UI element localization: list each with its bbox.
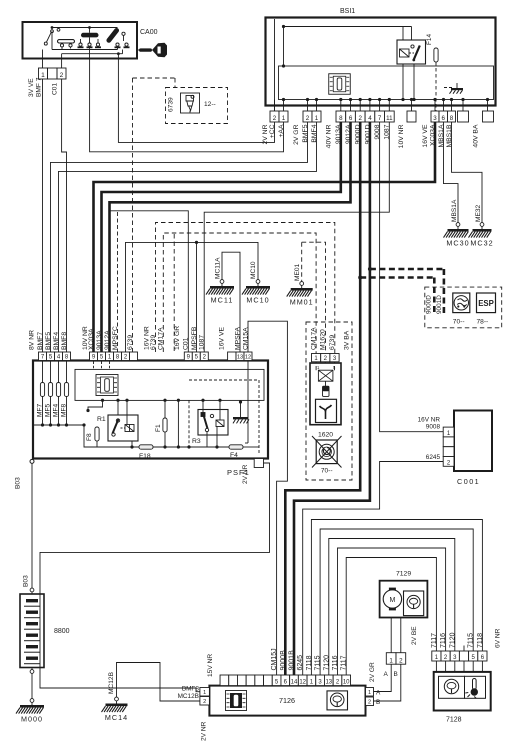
- svg-text:BMF8: BMF8: [182, 686, 199, 693]
- svg-text:4: 4: [368, 115, 372, 122]
- svg-text:M1620: M1620: [320, 329, 327, 350]
- svg-text:2: 2: [306, 115, 310, 122]
- svg-text:F18: F18: [139, 453, 151, 460]
- svg-text:F1: F1: [155, 424, 162, 432]
- svg-text:B03: B03: [14, 477, 21, 489]
- svg-text:9013A: 9013A: [96, 330, 103, 350]
- svg-text:MC11A: MC11A: [214, 257, 221, 279]
- svg-text:C01: C01: [51, 83, 58, 95]
- svg-text:BMF8: BMF8: [61, 332, 68, 350]
- svg-text:F4: F4: [230, 452, 238, 459]
- svg-text:13: 13: [325, 680, 332, 686]
- svg-text:14: 14: [291, 680, 298, 686]
- svg-text:70--: 70--: [453, 319, 465, 326]
- svg-text:12: 12: [245, 355, 251, 361]
- svg-text:F8: F8: [86, 433, 93, 441]
- svg-text:12: 12: [299, 680, 306, 686]
- svg-text:2: 2: [399, 657, 403, 664]
- svg-text:7128: 7128: [446, 717, 462, 724]
- svg-text:BMF7: BMF7: [37, 332, 44, 350]
- svg-text:ME01: ME01: [294, 263, 301, 281]
- svg-text:1: 1: [315, 115, 319, 122]
- svg-text:MM01: MM01: [290, 298, 314, 307]
- svg-text:3V VE: 3V VE: [28, 78, 35, 97]
- svg-text:BSI1: BSI1: [340, 8, 355, 15]
- svg-text:40V BA: 40V BA: [472, 124, 479, 148]
- svg-text:1: 1: [389, 657, 393, 664]
- svg-text:9001B: 9001B: [289, 650, 296, 671]
- svg-text:ESP: ESP: [478, 299, 494, 308]
- svg-text:F14: F14: [426, 34, 433, 45]
- svg-text:MPSFA: MPSFA: [234, 326, 241, 350]
- svg-text:1: 1: [203, 690, 206, 696]
- svg-text:6V NR: 6V NR: [494, 628, 501, 648]
- svg-text:6245: 6245: [297, 655, 304, 671]
- svg-text:R1: R1: [97, 416, 106, 423]
- svg-text:C001: C001: [457, 477, 480, 486]
- svg-text:7115: 7115: [315, 655, 322, 670]
- svg-text:ME32: ME32: [475, 204, 482, 222]
- svg-text:B: B: [394, 671, 398, 678]
- svg-text:2: 2: [273, 115, 277, 122]
- svg-text:9000B: 9000B: [280, 650, 287, 671]
- svg-text:1620: 1620: [318, 432, 333, 439]
- svg-text:CA00: CA00: [140, 29, 158, 36]
- svg-text:16V VE: 16V VE: [218, 326, 225, 350]
- svg-text:9012A: 9012A: [104, 330, 111, 350]
- svg-text:CM17A: CM17A: [158, 327, 165, 350]
- svg-text:6739: 6739: [150, 335, 157, 350]
- svg-text:BMF5: BMF5: [45, 332, 52, 350]
- svg-text:9000D: 9000D: [425, 295, 432, 314]
- svg-text:6739: 6739: [329, 335, 336, 350]
- svg-text:MC10: MC10: [246, 296, 269, 305]
- svg-text:BMF4: BMF4: [53, 332, 60, 350]
- svg-text:2: 2: [359, 115, 363, 122]
- svg-text:7116: 7116: [440, 633, 447, 648]
- svg-text:16V VE: 16V VE: [422, 124, 429, 148]
- svg-text:A: A: [384, 671, 389, 678]
- svg-text:6: 6: [442, 115, 446, 122]
- svg-text:MC12B: MC12B: [108, 671, 115, 694]
- svg-text:C01: C01: [183, 337, 190, 350]
- svg-text:2: 2: [60, 72, 64, 79]
- svg-text:CM15A: CM15A: [242, 327, 249, 350]
- svg-text:MC10: MC10: [250, 261, 257, 279]
- svg-text:9008: 9008: [426, 423, 441, 430]
- svg-text:BMF 7: BMF 7: [35, 77, 42, 97]
- svg-text:2V NR: 2V NR: [242, 464, 249, 484]
- svg-text:40V NR: 40V NR: [325, 124, 332, 148]
- svg-text:1087: 1087: [199, 335, 206, 350]
- svg-text:MC14: MC14: [105, 713, 128, 722]
- svg-text:3V BA: 3V BA: [343, 330, 350, 350]
- svg-text:2: 2: [368, 700, 371, 706]
- svg-text:7120: 7120: [449, 632, 456, 648]
- svg-text:MPSFB: MPSFB: [191, 326, 198, 350]
- svg-text:M: M: [389, 597, 395, 604]
- svg-text:7116: 7116: [332, 655, 339, 670]
- svg-text:MC12B: MC12B: [178, 693, 199, 700]
- svg-text:CM15J: CM15J: [271, 648, 278, 670]
- svg-text:7117: 7117: [341, 655, 348, 670]
- svg-text:9001D: 9001D: [436, 295, 443, 314]
- svg-text:B: B: [376, 699, 380, 706]
- svg-text:8V NR: 8V NR: [28, 330, 35, 350]
- svg-text:7: 7: [378, 115, 382, 122]
- svg-text:2V NR: 2V NR: [262, 124, 269, 144]
- svg-text:78--: 78--: [477, 319, 489, 326]
- svg-text:70--: 70--: [321, 468, 333, 475]
- svg-text:7126: 7126: [279, 696, 295, 705]
- svg-text:MC30: MC30: [446, 239, 469, 248]
- svg-text:B03: B03: [22, 575, 29, 587]
- svg-text:12--: 12--: [204, 101, 216, 108]
- svg-text:2V BE: 2V BE: [411, 626, 418, 645]
- svg-text:6245: 6245: [426, 454, 441, 461]
- svg-text:7117: 7117: [431, 633, 438, 648]
- svg-text:8: 8: [339, 115, 343, 122]
- svg-text:8800: 8800: [54, 628, 70, 635]
- svg-text:10: 10: [343, 680, 350, 686]
- svg-text:13: 13: [237, 355, 243, 361]
- svg-text:R3: R3: [192, 438, 201, 445]
- svg-text:MBS1A: MBS1A: [451, 199, 458, 222]
- svg-text:A: A: [376, 690, 381, 697]
- svg-text:XC03A: XC03A: [88, 328, 95, 350]
- svg-text:MPSFC: MPSFC: [112, 326, 119, 350]
- svg-text:MC32: MC32: [470, 239, 493, 248]
- svg-text:16V GR: 16V GR: [174, 326, 181, 350]
- svg-text:11: 11: [386, 115, 393, 122]
- svg-text:M000: M000: [21, 715, 43, 724]
- svg-text:2V GR: 2V GR: [293, 124, 300, 144]
- svg-text:6739: 6739: [167, 97, 174, 112]
- svg-text:8: 8: [450, 115, 454, 122]
- svg-text:MC11: MC11: [211, 296, 234, 305]
- svg-text:1: 1: [368, 690, 371, 696]
- svg-text:7115: 7115: [468, 633, 475, 648]
- svg-text:CM17A: CM17A: [311, 327, 318, 350]
- svg-text:2: 2: [203, 699, 206, 705]
- svg-text:10V NR: 10V NR: [398, 124, 405, 148]
- svg-text:2V GR: 2V GR: [369, 662, 376, 682]
- svg-text:7120: 7120: [323, 655, 330, 671]
- svg-text:7118: 7118: [477, 633, 484, 648]
- svg-text:15V NR: 15V NR: [207, 654, 214, 677]
- svg-text:2V NR: 2V NR: [200, 721, 207, 741]
- svg-text:7118: 7118: [306, 655, 313, 670]
- svg-text:3: 3: [433, 115, 437, 122]
- svg-text:6739: 6739: [127, 335, 134, 350]
- svg-text:6: 6: [349, 115, 353, 122]
- svg-text:1: 1: [282, 115, 286, 122]
- svg-text:7129: 7129: [396, 571, 411, 578]
